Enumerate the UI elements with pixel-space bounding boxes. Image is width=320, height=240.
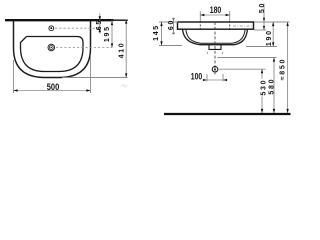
svg-text:180: 180 — [210, 5, 222, 15]
svg-text:195: 195 — [104, 25, 111, 42]
svg-text:145: 145 — [153, 24, 160, 41]
svg-text:190: 190 — [266, 29, 273, 46]
svg-text:≈850: ≈850 — [279, 58, 286, 80]
svg-text:500: 500 — [47, 82, 60, 92]
svg-text:100: 100 — [191, 71, 203, 81]
svg-text:50: 50 — [259, 2, 266, 13]
svg-text:530: 530 — [260, 79, 267, 96]
svg-text:410: 410 — [119, 42, 126, 59]
svg-text:60: 60 — [168, 19, 175, 30]
svg-text:65: 65 — [96, 19, 103, 30]
svg-text:580: 580 — [269, 78, 276, 95]
